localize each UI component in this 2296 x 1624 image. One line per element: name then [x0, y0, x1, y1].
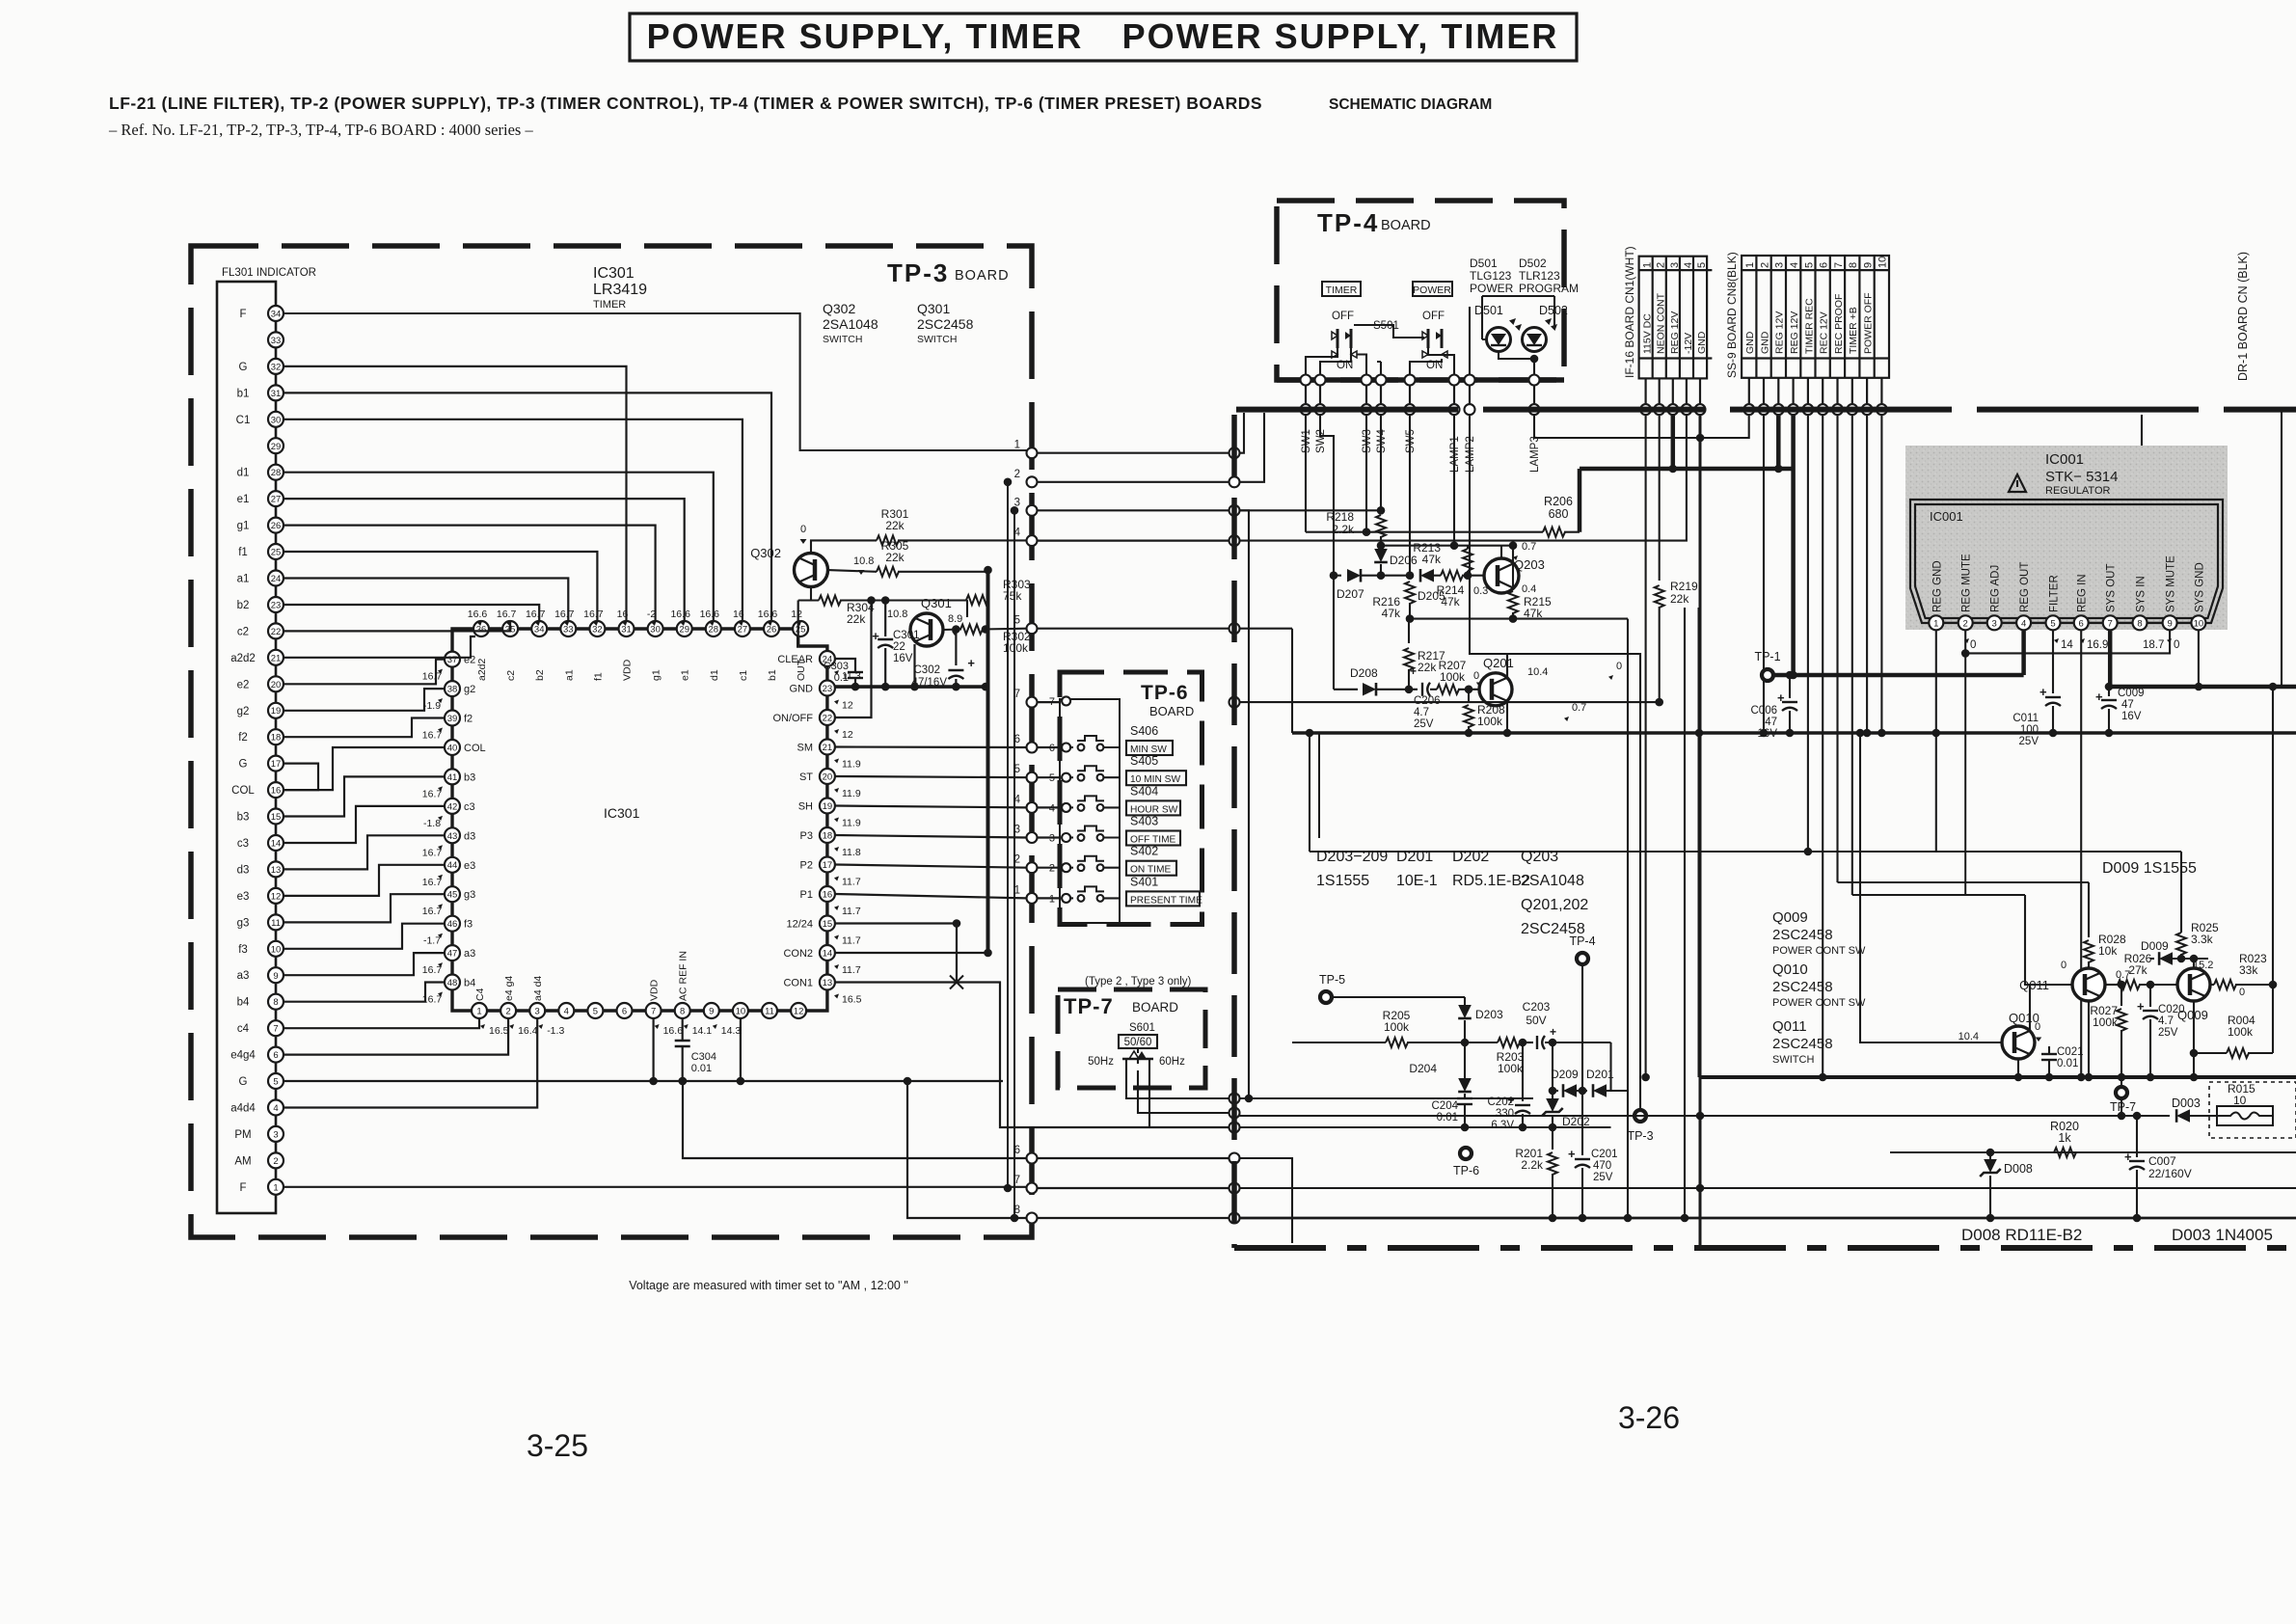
svg-text:-1.8: -1.8: [423, 818, 441, 829]
svg-text:REGULATOR: REGULATOR: [2045, 485, 2110, 497]
switch S405: [1062, 773, 1070, 782]
svg-text:D207: D207: [1337, 587, 1364, 601]
svg-text:2.2k: 2.2k: [1332, 523, 1355, 536]
svg-text:0: 0: [1473, 670, 1479, 682]
svg-text:C009: C009: [2118, 688, 2145, 699]
svg-text:D208: D208: [1350, 666, 1378, 680]
svg-text:DR-1 BOARD CN (BLK): DR-1 BOARD CN (BLK): [2236, 252, 2250, 381]
svg-text:14.3: 14.3: [721, 1025, 742, 1037]
svg-text:16.7: 16.7: [497, 609, 517, 620]
test point TP-4: [1577, 953, 1588, 964]
svg-text:CLEAR: CLEAR: [777, 654, 813, 665]
svg-text:9: 9: [1862, 262, 1874, 268]
svg-text:e2: e2: [237, 679, 250, 690]
svg-text:COL: COL: [464, 743, 486, 754]
svg-text:12: 12: [842, 729, 853, 741]
wire LAMP3 net: [1534, 415, 1749, 438]
svg-text:D202: D202: [1562, 1115, 1590, 1128]
svg-text:ON/OFF: ON/OFF: [772, 713, 813, 724]
zener D202: [1549, 1039, 1557, 1047]
svg-text:2: 2: [1963, 619, 1968, 630]
svg-text:a3: a3: [237, 970, 250, 982]
TP-6 pin 7 terminal: [1062, 696, 1070, 705]
test point TP-7: [2116, 1087, 2127, 1098]
svg-text:TP-3: TP-3: [887, 258, 949, 287]
svg-text:TP-1: TP-1: [1754, 650, 1780, 663]
svg-text:a4 d4: a4 d4: [532, 976, 544, 1001]
svg-text:16.6: 16.6: [670, 609, 690, 620]
wire SW2 net: [1320, 415, 1334, 690]
transistor Q009: [2177, 968, 2210, 1001]
svg-text:AC REF IN: AC REF IN: [678, 951, 689, 1001]
svg-text:28: 28: [709, 625, 719, 636]
svg-text:29: 29: [679, 625, 689, 636]
svg-text:3-26: 3-26: [1618, 1400, 1680, 1435]
wire Q010 emitter: [2017, 1059, 2019, 1077]
svg-text:IC001: IC001: [2045, 451, 2084, 468]
wire TIMER +B net: [1851, 415, 1853, 895]
svg-text:R219: R219: [1670, 580, 1698, 593]
svg-text:10: 10: [1877, 257, 1889, 268]
FL301 pin circles: [268, 306, 284, 321]
svg-text:SWITCH: SWITCH: [917, 334, 957, 345]
wire Q010 collector: [2030, 985, 2072, 1031]
svg-text:REG 12V: REG 12V: [1774, 311, 1786, 354]
svg-text:D204: D204: [1409, 1062, 1437, 1075]
svg-text:22k: 22k: [1670, 592, 1689, 606]
capacitor C303: [835, 659, 855, 672]
svg-text:Q201,202: Q201,202: [1521, 897, 1588, 913]
svg-text:6: 6: [622, 1007, 627, 1017]
svg-text:REG MUTE: REG MUTE: [1961, 554, 1973, 612]
diode D009 signal: [2150, 958, 2154, 960]
svg-text:0.7: 0.7: [1572, 702, 1586, 714]
svg-text:C206: C206: [1414, 695, 1441, 707]
svg-text:4: 4: [273, 1103, 278, 1114]
svg-text:C1: C1: [236, 415, 251, 426]
svg-text:G: G: [239, 759, 248, 771]
svg-text:9: 9: [2167, 619, 2172, 630]
svg-text:PRESENT TIME: PRESENT TIME: [1130, 895, 1202, 906]
svg-text:3-25: 3-25: [527, 1428, 588, 1463]
svg-text:25V: 25V: [1414, 718, 1434, 730]
capacitor C304: [682, 1018, 684, 1041]
svg-text:6: 6: [2079, 619, 2084, 630]
wire rail y1157: [1240, 1115, 2171, 1117]
title box: [630, 14, 1577, 61]
svg-text:ON TIME: ON TIME: [1130, 865, 1171, 876]
svg-text:IF-16 BOARD CN1(WHT): IF-16 BOARD CN1(WHT): [1623, 246, 1636, 378]
svg-text:25: 25: [796, 625, 806, 636]
svg-text:12: 12: [842, 700, 853, 712]
svg-text:50/60: 50/60: [1124, 1037, 1152, 1048]
svg-text:27: 27: [271, 495, 282, 505]
wire SW3 net: [1365, 415, 1367, 532]
wire OUT pin25 net: [797, 601, 799, 637]
svg-text:22k: 22k: [885, 519, 905, 532]
svg-text:16.7: 16.7: [422, 847, 443, 858]
svg-text:22k: 22k: [1418, 661, 1437, 674]
svg-text:47k: 47k: [1441, 595, 1460, 609]
svg-text:16.6: 16.6: [758, 609, 778, 620]
svg-text:b4: b4: [237, 997, 250, 1009]
wire thick rail y1117: [1699, 1075, 2296, 1079]
svg-text:2SC2458: 2SC2458: [1772, 979, 1833, 995]
svg-text:2.2k: 2.2k: [1521, 1158, 1544, 1172]
svg-text:1: 1: [476, 1007, 481, 1017]
svg-text:32: 32: [271, 362, 282, 372]
wire CN8 gnd2 net: [1763, 415, 1765, 733]
resistor R302: [943, 628, 961, 631]
svg-text:d1: d1: [709, 669, 720, 681]
wire rail y883: [1310, 851, 2181, 853]
svg-text:g2: g2: [464, 684, 475, 695]
svg-text:5: 5: [593, 1007, 598, 1017]
svg-text:C301: C301: [893, 630, 920, 641]
svg-text:f3: f3: [238, 944, 248, 956]
capacitor C201: [1581, 1091, 1583, 1155]
svg-text:REG GND: REG GND: [1931, 560, 1943, 612]
wire FL301 pin21 a2d2 to IC301 pin36: [284, 636, 475, 658]
svg-text:+: +: [2039, 685, 2047, 699]
svg-text:D009: D009: [2141, 939, 2169, 953]
wire FL301 G17-COL16 bracket: [284, 764, 318, 791]
svg-text:a1: a1: [237, 574, 250, 585]
svg-text:SCHEMATIC DIAGRAM: SCHEMATIC DIAGRAM: [1329, 96, 1492, 113]
svg-text:5: 5: [1803, 262, 1815, 268]
wire CN1 GND main vertical: [1699, 415, 1702, 1248]
svg-text:16.6: 16.6: [700, 609, 720, 620]
svg-text:14: 14: [2061, 639, 2073, 651]
wire SYS OUT pin7 thick: [2108, 630, 2113, 687]
IC001 package outline: [1910, 500, 2223, 623]
svg-text:+: +: [1410, 664, 1417, 678]
svg-text:C4: C4: [474, 988, 486, 1001]
connector drops to bus: [1644, 378, 1646, 404]
diode D206: [1380, 546, 1382, 550]
wire thick rail y486: [1580, 467, 1794, 472]
svg-text:11: 11: [765, 1007, 774, 1017]
resistor R020: [2054, 1148, 2076, 1157]
svg-text:47: 47: [1765, 717, 1777, 728]
svg-text:2SC2458: 2SC2458: [1772, 927, 1833, 943]
svg-text:33k: 33k: [2239, 963, 2258, 977]
svg-text:REG OUT: REG OUT: [2019, 562, 2031, 612]
svg-text:SYS GND: SYS GND: [2194, 562, 2205, 612]
transistor Q302: [795, 554, 828, 587]
svg-text:60Hz: 60Hz: [1159, 1056, 1185, 1068]
svg-text:Q302: Q302: [750, 546, 781, 560]
svg-text:c3: c3: [237, 838, 249, 850]
svg-text:CON1: CON1: [783, 978, 813, 989]
wire TP-4 vertical: [1581, 964, 1583, 1091]
svg-text:c1: c1: [738, 670, 749, 681]
svg-text:G: G: [239, 362, 248, 373]
svg-text:D003 1N4005: D003 1N4005: [2172, 1226, 2273, 1244]
wire CN8 reg12v net: [1776, 415, 1781, 469]
transistor Q201: [1479, 673, 1512, 706]
resistor R207: [1437, 685, 1459, 694]
svg-text:-1.9: -1.9: [423, 700, 441, 712]
svg-text:36: 36: [476, 625, 487, 636]
svg-text:18: 18: [823, 831, 833, 842]
svg-text:SM: SM: [797, 743, 814, 754]
svg-text:D009 1S1555: D009 1S1555: [2102, 860, 2197, 877]
svg-text:17: 17: [823, 860, 833, 871]
svg-text:c4: c4: [237, 1023, 250, 1035]
svg-text:TLG123: TLG123: [1470, 269, 1512, 283]
svg-text:b1: b1: [237, 388, 250, 399]
wire emitter rail y641: [1410, 618, 1628, 620]
wire CN8 pin10 net: [1880, 415, 1882, 733]
svg-text:47k: 47k: [1422, 553, 1442, 566]
svg-text:SWITCH: SWITCH: [823, 334, 862, 345]
wires FL301 pins 20-8 to IC301 left column: [284, 660, 445, 685]
svg-text:47: 47: [2121, 699, 2134, 711]
svg-text:R218: R218: [1326, 510, 1354, 524]
svg-text:16.7: 16.7: [554, 609, 575, 620]
svg-text:26: 26: [271, 521, 282, 531]
svg-text:11.7: 11.7: [842, 877, 861, 888]
svg-text:0: 0: [2239, 987, 2245, 998]
svg-text:POWER SUPPLY, TIMER: POWER SUPPLY, TIMER: [1122, 16, 1559, 56]
wire Q301 emitter: [913, 644, 915, 687]
svg-text:11.7: 11.7: [842, 964, 861, 976]
svg-text:SWITCH: SWITCH: [1772, 1054, 1814, 1066]
TIMER label: [1322, 282, 1361, 296]
svg-text:17: 17: [271, 759, 282, 770]
resistor R028: [2088, 882, 2090, 937]
wire net to edge 8: [907, 1081, 1027, 1218]
TP-3 board outline: [191, 246, 1032, 1237]
svg-text:COL: COL: [231, 785, 255, 797]
svg-text:1: 1: [1049, 893, 1055, 905]
svg-text:9: 9: [709, 1007, 714, 1017]
svg-text:REC 12V: REC 12V: [1819, 311, 1830, 354]
svg-text:D502: D502: [1519, 257, 1547, 270]
svg-text:d1: d1: [237, 468, 250, 479]
svg-text:+: +: [2095, 690, 2103, 704]
wire 115V DC net: [1645, 415, 1647, 1077]
TP-4 bottom edge pins: [1301, 375, 1311, 386]
resistor R206: [1543, 528, 1565, 537]
wire LAMP1 net: [1453, 415, 1455, 546]
svg-text:a1: a1: [563, 669, 575, 681]
svg-text:P2: P2: [800, 860, 813, 872]
wire rail y1169: [1240, 1126, 1611, 1128]
wire REC 12V net: [1822, 415, 1823, 1077]
IC301 left pins 37-48: [445, 652, 460, 667]
wire ON/OFF pin22: [835, 601, 872, 718]
test point TP-5: [1320, 991, 1332, 1003]
svg-text:19: 19: [823, 801, 833, 812]
wires IC301 right pins to TP-6: [835, 745, 1027, 748]
resistor R217: [1408, 619, 1410, 643]
svg-text:f2: f2: [464, 714, 473, 725]
svg-text:g3: g3: [464, 889, 475, 901]
svg-text:S402: S402: [1130, 845, 1158, 858]
TP-4 bottom edge solid: [1277, 377, 1564, 383]
svg-text:100k: 100k: [2228, 1025, 2254, 1039]
svg-text:+: +: [1777, 690, 1785, 705]
svg-text:33: 33: [563, 625, 574, 636]
wires FL301 bottom pins to IC301 bottom row: [284, 1018, 479, 1028]
svg-text:38: 38: [447, 685, 458, 695]
resistor R305: [828, 570, 878, 572]
svg-text:22/160V: 22/160V: [2148, 1167, 2192, 1180]
wires timer switch to board edge: [1306, 348, 1337, 380]
svg-text:16: 16: [271, 786, 282, 797]
svg-text:IC301: IC301: [604, 805, 640, 821]
svg-text:10: 10: [2233, 1094, 2247, 1107]
svg-text:C201: C201: [1591, 1149, 1618, 1160]
resistor R203: [1498, 1038, 1520, 1047]
svg-text:IC001: IC001: [1930, 509, 1963, 524]
svg-text:10: 10: [271, 944, 282, 955]
wire GND pin23 rail: [835, 685, 988, 689]
TP-2 board outline bottom edge: [1234, 1245, 2296, 1251]
diode D209: [1563, 1084, 1577, 1097]
svg-text:6: 6: [1819, 262, 1830, 268]
svg-text:16.9: 16.9: [2087, 639, 2108, 651]
IC301 right pins 24-13: [820, 651, 835, 666]
svg-text:GND: GND: [1696, 331, 1708, 354]
svg-text:F: F: [239, 309, 246, 320]
wire SW1 net: [1305, 415, 1307, 532]
svg-text:b4: b4: [464, 978, 475, 989]
svg-text:ST: ST: [799, 771, 813, 783]
svg-text:RD5.1E-B2: RD5.1E-B2: [1452, 873, 1530, 889]
svg-text:44: 44: [447, 860, 458, 871]
svg-text:12: 12: [794, 1007, 804, 1017]
svg-text:30: 30: [271, 415, 282, 425]
wire thick rail y712: [2110, 685, 2296, 690]
svg-text:100k: 100k: [2093, 1015, 2119, 1029]
svg-text:g3: g3: [237, 917, 250, 929]
svg-text:16.4: 16.4: [518, 1025, 538, 1037]
svg-text:Q010: Q010: [1772, 961, 1808, 978]
resistor R205: [1292, 1042, 1386, 1043]
svg-text:1: 1: [1933, 619, 1938, 630]
svg-text:f1: f1: [592, 672, 604, 681]
svg-text:34: 34: [534, 625, 545, 636]
svg-text:+: +: [2137, 999, 2145, 1014]
svg-text:3: 3: [1049, 833, 1055, 845]
svg-text:29: 29: [271, 442, 282, 452]
wire mute net pins 2-9: [1965, 630, 2170, 653]
svg-text:0: 0: [1616, 661, 1622, 672]
switch S401: [1062, 894, 1070, 903]
svg-text:0: 0: [2174, 639, 2179, 651]
svg-text:e3: e3: [237, 891, 250, 903]
svg-text:39: 39: [447, 714, 458, 724]
svg-text:23: 23: [271, 601, 282, 611]
svg-text:33: 33: [271, 336, 282, 346]
svg-text:100: 100: [2020, 724, 2039, 736]
svg-text:BOARD: BOARD: [955, 268, 1010, 284]
svg-text:S401: S401: [1130, 875, 1158, 888]
wire vertical x1747: [1684, 608, 1686, 1218]
diode D207: [1334, 575, 1341, 577]
svg-text:f1: f1: [238, 547, 248, 558]
svg-text:23: 23: [823, 684, 833, 694]
svg-text:14: 14: [271, 839, 282, 850]
svg-text:22k: 22k: [885, 551, 905, 564]
TP-7 board outline: [1058, 989, 1205, 1088]
svg-text:10.4: 10.4: [1958, 1031, 1979, 1042]
svg-text:10k: 10k: [2098, 944, 2118, 958]
wire TIMER REC net: [1807, 415, 1809, 852]
svg-text:-1.3: -1.3: [547, 1025, 564, 1037]
svg-text:a4d4: a4d4: [230, 1103, 256, 1115]
IC301 bottom pins 1-12: [472, 1003, 487, 1018]
svg-text:OFF: OFF: [1332, 311, 1354, 322]
svg-text:26: 26: [767, 625, 777, 636]
svg-text:VDD: VDD: [649, 979, 661, 1001]
svg-text:C302: C302: [914, 664, 941, 676]
svg-text:S601: S601: [1129, 1022, 1155, 1034]
svg-text:100k: 100k: [1384, 1020, 1410, 1034]
svg-text:+: +: [2124, 1150, 2132, 1164]
resistor R026: [2105, 984, 2118, 986]
svg-text:27: 27: [738, 625, 748, 636]
wire rail R020 line y1195: [1890, 1151, 2296, 1153]
svg-text:REC PROOF: REC PROOF: [1833, 294, 1845, 354]
wire CN8 reg12v-2 thick net TP-1: [1791, 415, 1796, 675]
transistor Q010: [2002, 1026, 2035, 1059]
svg-text:31: 31: [271, 389, 282, 399]
TP-6 inner connector box: [1060, 699, 1120, 923]
svg-text:Q301: Q301: [921, 596, 952, 610]
svg-text:POWER CONT SW: POWER CONT SW: [1772, 945, 1866, 957]
wire left verticals: [1309, 733, 1310, 852]
svg-text:g2: g2: [237, 706, 250, 717]
svg-text:REG IN: REG IN: [2077, 574, 2089, 612]
svg-text:TP-4: TP-4: [1569, 934, 1595, 948]
svg-text:0.01: 0.01: [1437, 1112, 1458, 1123]
LED wiring: [1482, 296, 1554, 339]
svg-text:2: 2: [1049, 863, 1055, 875]
svg-text:b1: b1: [767, 669, 778, 681]
svg-text:TP-3: TP-3: [1627, 1129, 1653, 1143]
switch S402: [1062, 863, 1070, 872]
switch S406: [1062, 744, 1070, 752]
svg-text:16V: 16V: [1758, 728, 1778, 740]
wire pin3 extension to R218: [1240, 509, 1382, 511]
svg-text:D203: D203: [1475, 1008, 1503, 1021]
svg-text:TIMER: TIMER: [593, 299, 626, 311]
svg-text:4: 4: [1789, 262, 1800, 268]
svg-text:POWER: POWER: [1413, 284, 1451, 296]
wire right vertical x2357: [2272, 687, 2274, 1053]
svg-text:20: 20: [823, 772, 833, 783]
TP-4 board outline: [1277, 201, 1564, 380]
svg-text:16.7: 16.7: [422, 788, 443, 799]
wire pin3 net: [1240, 510, 1250, 1098]
svg-text:16.5: 16.5: [842, 994, 862, 1006]
capacitor C203: [1536, 1036, 1538, 1049]
svg-text:TP-4: TP-4: [1317, 208, 1379, 237]
svg-text:4.7: 4.7: [2158, 1015, 2174, 1027]
resistor R201: [1552, 1127, 1553, 1150]
test point TP-3: [1634, 1110, 1646, 1122]
svg-text:16.7: 16.7: [583, 609, 604, 620]
resistor R301: [811, 540, 877, 553]
wire REG MUTE extension: [1964, 653, 1966, 895]
wire reg12v thick net: [1671, 415, 1676, 469]
svg-text:25V: 25V: [2019, 736, 2039, 747]
wire 12/24 net: [835, 922, 957, 924]
